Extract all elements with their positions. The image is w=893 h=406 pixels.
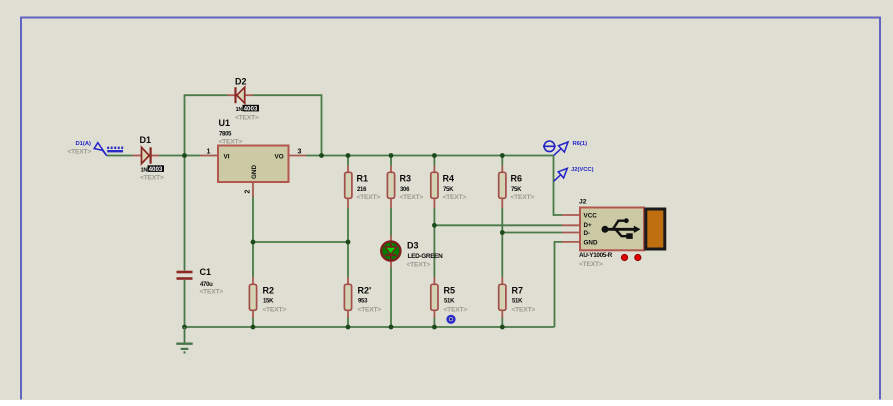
svg-text:<TEXT>: <TEXT>: [140, 175, 164, 182]
resistor R1: [345, 172, 381, 201]
svg-text:75K: 75K: [443, 187, 454, 193]
wire R2' to ground rail: [347, 318, 349, 327]
wire ground rail: [185, 326, 555, 328]
wire R2' bottom pin stub: [347, 311, 349, 319]
wire node A down to C1 top: [184, 156, 186, 271]
wire J2 GND pin stub: [562, 241, 580, 243]
wire node D- to J2: [502, 232, 562, 234]
resistor R4: [431, 172, 467, 201]
wire R6 down to R7 through node D-: [501, 208, 503, 277]
svg-text:470u: 470u: [200, 282, 213, 288]
svg-text:R5: R5: [444, 286, 456, 296]
svg-text:D2: D2: [235, 77, 247, 87]
svg-text:R4: R4: [443, 174, 455, 184]
wire C1 bottom to ground rail: [184, 280, 186, 327]
wire rail to R6: [501, 156, 503, 166]
wire D3 cathode pin stub: [390, 261, 392, 268]
wire R3 down to D3: [390, 208, 392, 236]
svg-text:VO: VO: [275, 154, 284, 161]
junction rail / R4: [432, 153, 437, 158]
svg-text:15K: 15K: [263, 299, 274, 305]
junction ground rail / R7: [500, 325, 505, 330]
svg-text:R1: R1: [357, 174, 369, 184]
svg-text:R6: R6: [511, 174, 523, 184]
resistor R2': [344, 284, 381, 313]
svg-text:D1: D1: [140, 135, 152, 145]
svg-text:<TEXT>: <TEXT>: [511, 194, 535, 201]
wire rail corner down to VCC level: [554, 156, 563, 216]
resistor R6: [499, 172, 535, 201]
svg-text:51K: 51K: [444, 299, 455, 305]
USB connector J2 AU-Y1005-R: [579, 198, 665, 268]
wire U1 pin 2 down to node B: [252, 197, 254, 242]
wire D1 anode pin stub: [133, 155, 142, 157]
wire D1 to node A: [159, 155, 185, 157]
svg-text:953: 953: [358, 299, 368, 305]
resistor R5: [431, 284, 468, 313]
wire R2 to ground rail: [252, 318, 254, 327]
svg-text:GND: GND: [251, 165, 258, 179]
wire R5 top pin stub: [433, 277, 435, 284]
svg-text:D3: D3: [407, 241, 419, 251]
svg-text:D1(A): D1(A): [76, 141, 92, 147]
wire node B horizontal to R2' branch: [253, 241, 348, 243]
wire rail to R4: [433, 156, 435, 166]
svg-text:<TEXT>: <TEXT>: [400, 194, 424, 201]
svg-text:<TEXT>: <TEXT>: [407, 262, 431, 269]
wire rail to R3: [390, 156, 392, 166]
wire node D+ to J2: [434, 224, 562, 226]
svg-text:51K: 51K: [512, 299, 523, 305]
svg-text:7805: 7805: [219, 132, 232, 138]
wire output rail U1 pin3 to right corner: [306, 155, 554, 157]
svg-text:GND: GND: [584, 239, 598, 246]
junction rail / R6: [500, 153, 505, 158]
usb trident icon: [602, 218, 641, 239]
capacitor C1: [177, 267, 224, 296]
svg-text:R2: R2: [263, 286, 275, 296]
junction dots: [182, 153, 505, 329]
svg-text:2: 2: [245, 190, 252, 194]
wire R5 to ground rail: [433, 318, 435, 327]
svg-text:R3: R3: [400, 174, 412, 184]
wire R7 to ground rail: [501, 318, 503, 327]
wire R3 bottom pin stub: [390, 199, 392, 209]
wire D2 anode pin stub: [245, 94, 253, 96]
svg-text:<TEXT>: <TEXT>: [512, 307, 536, 314]
wire input terminal to D1 anode: [107, 155, 133, 157]
diode D1: [140, 135, 165, 182]
LED D3: [381, 241, 443, 269]
wire J2 GND to ground rail: [555, 242, 563, 327]
terminal J2(VCC): [554, 167, 594, 182]
wire D1 cathode pin stub: [151, 155, 160, 157]
junction rail / D2 anode: [319, 153, 324, 158]
junction D+ tap: [432, 223, 437, 228]
junction ground rail / R5: [432, 325, 437, 330]
red marker dots: [621, 254, 627, 260]
wire R5 bottom pin stub: [433, 311, 435, 319]
svg-text:U1: U1: [219, 118, 231, 128]
wire D3 to ground rail: [390, 268, 392, 328]
junction ground rail / D3: [389, 325, 394, 330]
wire R7 bottom pin stub: [501, 311, 503, 319]
wire J2 VCC pin stub: [562, 214, 580, 216]
wire U1 pin 1 stub: [200, 155, 218, 157]
wire D2 cathode pin stub: [228, 94, 236, 96]
svg-text:LED-GREEN: LED-GREEN: [408, 253, 444, 260]
wire R4 bottom pin stub: [433, 199, 435, 209]
wire U1 pin 2 stub: [252, 182, 254, 197]
svg-text:<TEXT>: <TEXT>: [68, 149, 92, 156]
svg-text:1N: 1N: [141, 168, 148, 174]
svg-text:AU-Y1005-R: AU-Y1005-R: [579, 252, 613, 259]
svg-text:<TEXT>: <TEXT>: [263, 307, 287, 314]
wire R6 top pin stub: [501, 166, 503, 173]
resistor R2: [249, 284, 286, 313]
svg-text:R7: R7: [512, 286, 524, 296]
node B junction: [251, 240, 256, 245]
wire R2' top pin stub: [347, 277, 349, 284]
svg-text:D+: D+: [584, 222, 593, 229]
wire R1 down to R2': [347, 208, 349, 277]
junction D- tap: [500, 230, 505, 235]
svg-text:D-: D-: [584, 230, 591, 237]
junction ground rail / R2: [251, 325, 256, 330]
svg-text:216: 216: [357, 187, 367, 193]
resistor R7: [499, 284, 536, 313]
wire R4 down to R5 through node D+: [433, 208, 435, 277]
svg-text:C1: C1: [200, 267, 212, 277]
diode D2: [235, 77, 259, 122]
wire rail to R1: [347, 156, 349, 166]
junction rail / R3: [389, 153, 394, 158]
svg-text:75K: 75K: [511, 187, 522, 193]
junction rail / R1: [346, 153, 351, 158]
node A junction: [182, 153, 187, 158]
wire R1 bottom pin stub: [347, 199, 349, 209]
terminal R6(1): [543, 141, 587, 156]
wire R6 bottom pin stub: [501, 199, 503, 209]
svg-text:VCC: VCC: [584, 213, 598, 220]
wire R7 top pin stub: [501, 277, 503, 284]
svg-text:<TEXT>: <TEXT>: [444, 307, 468, 314]
junction ground rail / C1: [182, 325, 187, 330]
usb shell (orange): [646, 209, 665, 249]
svg-text:<TEXT>: <TEXT>: [579, 261, 603, 268]
svg-text:4003: 4003: [149, 166, 163, 173]
svg-text:<TEXT>: <TEXT>: [200, 289, 224, 296]
svg-text:J2: J2: [579, 198, 587, 205]
svg-text:J2(VCC): J2(VCC): [571, 167, 594, 173]
svg-text:4003: 4003: [244, 106, 258, 113]
wire J2 D+ pin stub: [562, 224, 580, 226]
wire U1 pin 3 stub: [289, 155, 307, 157]
svg-text:1: 1: [207, 149, 211, 156]
svg-text:<TEXT>: <TEXT>: [219, 139, 243, 146]
ground: [176, 327, 192, 352]
svg-text:1N: 1N: [236, 107, 243, 113]
wire R2 top pin stub: [252, 277, 254, 284]
wire R3 top pin stub: [390, 166, 392, 173]
resistor R3: [387, 172, 423, 201]
wire D2 anode horizontal and down to output rail: [253, 95, 322, 155]
svg-text:R6(1): R6(1): [573, 141, 588, 147]
svg-text:<TEXT>: <TEXT>: [358, 307, 382, 314]
wire R2 bottom pin stub: [252, 311, 254, 319]
svg-text:<TEXT>: <TEXT>: [235, 115, 259, 122]
svg-text:<TEXT>: <TEXT>: [357, 194, 381, 201]
svg-text:R2': R2': [358, 286, 372, 296]
regulator U1 7805: [207, 118, 302, 194]
svg-text:VI: VI: [224, 154, 230, 161]
node marker (blue dot near R5): [448, 316, 455, 323]
wire R1 top pin stub: [347, 166, 349, 173]
wire D3 anode pin stub: [390, 236, 392, 242]
svg-text:<TEXT>: <TEXT>: [443, 194, 467, 201]
wire J2 D- pin stub: [562, 232, 580, 234]
svg-text:306: 306: [400, 187, 410, 193]
wire D2 cathode horizontal and down to node A: [185, 95, 228, 155]
wire node A to U1 pin 1: [185, 155, 201, 157]
wire R4 top pin stub: [433, 166, 435, 173]
svg-text:3: 3: [298, 149, 302, 156]
junction node B / R2' branch: [346, 240, 351, 245]
wire node B down to R2: [252, 242, 254, 277]
junction ground rail / R2': [346, 325, 351, 330]
terminal D1(A) input: [68, 141, 124, 156]
